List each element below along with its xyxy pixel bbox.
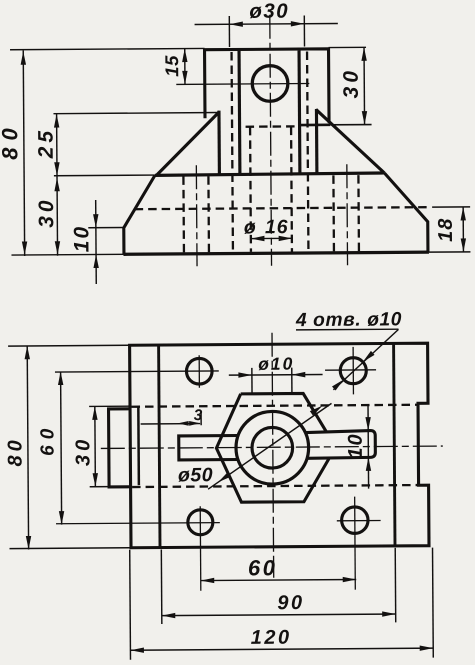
top view: top hole row center line right <box>325 369 376 371</box>
extension line for dim 30 bottom <box>330 124 371 126</box>
arrowhead 80tv up <box>24 346 29 360</box>
front view: hidden line of right ø10 hole right edge <box>357 175 360 251</box>
front view: hidden line of ø30 hole right <box>307 52 308 252</box>
top view: vertical center line top-right hole <box>352 347 354 394</box>
arrowhead 60L up <box>58 372 63 386</box>
dimension line 60 left <box>61 372 62 525</box>
top view: bottom hole row center line right <box>337 520 381 522</box>
top view: ø10 hole bottom-right <box>342 507 369 534</box>
front view: column outline (top edge, left and right edges) <box>205 49 330 124</box>
svg-text:80: 80 <box>0 121 22 160</box>
top view: right inner edge (chamfer line) <box>394 343 395 545</box>
arrowhead 18 down <box>461 238 466 252</box>
dimension line 10 slot <box>367 405 370 488</box>
dimension line ø50 diagonal <box>208 403 333 489</box>
front view: hidden line of left ø10 hole right edge <box>207 176 210 252</box>
front view: hidden line of ø30 hole left <box>232 52 233 252</box>
extension line bottom left (dim 80) <box>11 253 123 256</box>
arrowhead 3 left <box>178 421 189 426</box>
extension tick for dim 3 <box>200 412 202 425</box>
front view: left gusset vertical edge <box>217 111 221 175</box>
leader diagonal to ø10 hole <box>333 329 399 389</box>
dimension line 15 <box>184 49 186 85</box>
extension below for dim 90 left <box>160 550 163 624</box>
arrowhead ø16 left <box>251 236 265 241</box>
front view: left gusset slope <box>156 112 220 176</box>
svg-text:60: 60 <box>248 555 278 580</box>
top view: vertical center line bottom-right hole, extended for dim 60 <box>354 497 357 590</box>
front view: base bottom edge <box>123 252 428 254</box>
extension top edge left (dim 80) <box>8 344 129 347</box>
svg-text:90: 90 <box>277 592 304 614</box>
svg-text:30: 30 <box>35 196 58 228</box>
arrowhead 30 up <box>54 178 59 192</box>
front view: hidden line of ø16 hole left <box>249 127 252 252</box>
arrowhead 120 right <box>420 645 434 650</box>
svg-text:25: 25 <box>35 127 58 160</box>
dimension line 30 top view <box>94 406 97 486</box>
svg-text:10: 10 <box>70 225 93 253</box>
svg-text:60: 60 <box>37 423 58 456</box>
arrowhead 90 right <box>382 611 396 616</box>
arrowhead 60b left <box>201 578 215 583</box>
extension line for dims 25/30 at base top <box>54 174 155 177</box>
front view: right gusset slope <box>316 109 384 173</box>
arrowhead 10 lower <box>93 254 98 268</box>
front view: center line of right ø10 hole <box>346 164 349 265</box>
front view: hidden line of left ø10 hole left edge <box>182 176 185 252</box>
svg-text:4 отв. ø10: 4 отв. ø10 <box>295 309 402 331</box>
arrowhead 80tv down <box>26 536 31 550</box>
arrowhead 80 down <box>22 241 27 255</box>
arrowhead slot10 upper <box>365 417 370 431</box>
extension line top left (dims 80,15) <box>10 48 204 49</box>
extension line ø30 left <box>228 16 230 47</box>
extension line for dim 30 bottom (thick part) <box>300 124 330 127</box>
top view: left side tab <box>109 409 131 487</box>
svg-text:18: 18 <box>435 218 457 242</box>
extension for dim ø10 center left <box>251 368 253 394</box>
arrowhead 30tv up <box>92 406 97 420</box>
front view: hidden line of ø16 hole right <box>290 127 293 252</box>
front view: hidden line of base plate top face <box>135 207 428 209</box>
extension line bottom right (dim 18) <box>429 251 470 253</box>
top view: ø10 hole top-right <box>340 358 366 384</box>
top view: left notch inner edge <box>137 407 140 485</box>
dimension line ø16 <box>251 237 292 239</box>
top view: hidden line of notch upper <box>132 405 417 407</box>
front view: hidden line of hole bottom <box>246 125 296 128</box>
arrowhead 25 up <box>54 114 59 128</box>
dimension line 30 right <box>363 47 366 124</box>
leader underline 4 otv ø10 <box>296 328 398 331</box>
front view: base top edge <box>155 173 385 175</box>
arrowhead 3 right <box>189 421 200 426</box>
top view: vertical center line top-left hole <box>198 355 200 387</box>
arrowhead ø50 upper <box>310 406 323 416</box>
svg-text:ø30: ø30 <box>249 0 289 23</box>
front view: ø16 side hole circle <box>252 66 288 102</box>
arrowhead ø30 right <box>291 21 305 26</box>
arrowhead ø16 right <box>279 236 293 241</box>
svg-text:3: 3 <box>194 407 205 424</box>
svg-text:80: 80 <box>4 436 26 466</box>
arrowhead 60L down <box>59 511 64 525</box>
svg-text:ø10: ø10 <box>258 354 294 374</box>
arrowhead 90 left <box>162 613 176 618</box>
arrowhead 30tv down <box>93 473 98 487</box>
svg-text:30: 30 <box>72 436 94 466</box>
top view: ø30 hole circle <box>236 411 309 484</box>
svg-text:120: 120 <box>251 627 292 649</box>
top view: hexagon top flat and top-right slope <box>241 393 326 431</box>
top view: ø10 hole top-left <box>186 358 212 384</box>
arrowhead 30 down <box>55 241 60 255</box>
dimension line 80 <box>23 50 24 255</box>
dimension line 90 <box>162 614 396 616</box>
arrowhead 10 upper <box>93 214 98 228</box>
top view: bottom hole row center line left <box>56 523 220 524</box>
top view: left inner edge (chamfer line) <box>159 345 160 547</box>
dimension line ø30 <box>195 23 338 24</box>
extension line top right (dim 30) <box>329 46 366 48</box>
arrowhead leader upper at circle <box>363 351 375 362</box>
arrowhead 18 up <box>460 207 465 221</box>
top view: slot right part with rounded end <box>306 431 375 459</box>
top view: hexagon boss left part and bottom <box>216 393 330 502</box>
dimension line 25/30 <box>56 114 59 256</box>
front view: center line of left ø10 hole <box>195 165 198 266</box>
front view: hidden line of right ø10 hole left edge <box>332 175 335 251</box>
svg-text:ø50: ø50 <box>178 464 213 486</box>
arrowhead 80 up <box>21 51 26 65</box>
extension line for dim 10 <box>88 226 123 228</box>
extension for dim 30 top <box>89 405 129 407</box>
arrowhead 120 left <box>130 647 144 652</box>
top view: horizontal center line <box>101 446 443 448</box>
arrowhead ø10c left <box>238 372 252 377</box>
arrowhead 60b right <box>343 577 357 582</box>
arrowhead ø50 lower <box>218 472 231 482</box>
front view: right gusset vertical edge <box>315 109 319 173</box>
dimension line 80 top view <box>27 346 28 550</box>
top view: vertical center line <box>272 333 274 578</box>
dimension line 18 <box>462 207 464 252</box>
dimension line 120 <box>130 648 433 650</box>
top view: slot left part with end <box>179 435 239 459</box>
arrowhead slot10 lower <box>366 457 371 471</box>
front view: hex boss right front corner <box>297 51 301 174</box>
top view: main outline 120x80 with right side notch <box>130 343 429 548</box>
extension for dim ø10 center right <box>291 368 293 394</box>
svg-text:16: 16 <box>265 216 289 238</box>
dimension line 60 bottom <box>201 579 356 580</box>
svg-text:ø: ø <box>244 216 256 238</box>
svg-text:10: 10 <box>345 432 367 458</box>
extension below for dim 120 left <box>129 550 132 660</box>
extension line for dim 25 top <box>53 113 219 114</box>
extension line for dim 18 top <box>432 206 470 208</box>
extension bottom edge left (dim 80) <box>10 547 131 550</box>
front view: right chamfer and right edge of base <box>384 173 428 253</box>
dimension line 3 <box>141 423 200 425</box>
top view: vertical center line bottom-left hole, extended for dim 60 <box>199 506 202 590</box>
extension line ø30 right <box>303 16 305 47</box>
front view: hex boss left front corner <box>237 51 241 174</box>
arrowhead 25 down <box>54 162 59 176</box>
arrowhead ø10c right <box>292 372 306 377</box>
svg-text:15: 15 <box>161 55 182 77</box>
arrowhead 15 up <box>182 49 187 63</box>
dimension line 10 <box>95 200 98 284</box>
extension below for dim 120 right <box>432 548 435 658</box>
arrowhead 30R up <box>361 47 366 61</box>
top view: hidden line of notch lower <box>132 485 417 487</box>
arrowhead leader lower at circle <box>332 379 344 390</box>
dimension line ø10 center <box>229 374 323 377</box>
top view: ø10 hole bottom-left <box>188 510 213 535</box>
front view: horizontal center line through side hole <box>176 82 309 85</box>
extension for dim 30 bottom <box>90 485 130 487</box>
arrowhead 15 down <box>182 71 187 85</box>
top view: ø16 hole circle <box>252 427 293 468</box>
extension below for dim 90 right <box>394 548 397 622</box>
arrowhead ø30 left <box>229 21 243 26</box>
front view: left chamfer and left edge of base <box>123 175 155 254</box>
arrowhead 30R down <box>362 111 367 125</box>
svg-text:30: 30 <box>340 67 363 99</box>
top view: top hole row center line left <box>55 371 219 372</box>
front view: vertical center line <box>270 15 272 266</box>
